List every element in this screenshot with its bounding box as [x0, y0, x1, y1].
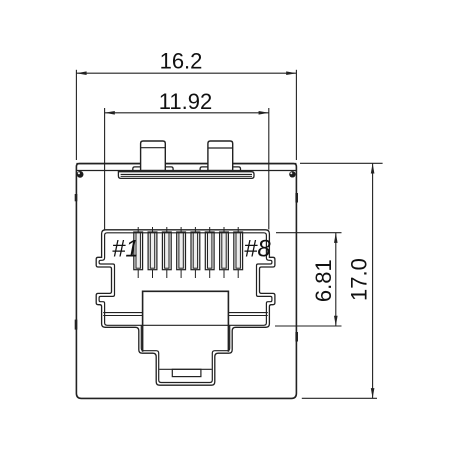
jack cavity inner outline — [99, 233, 272, 325]
cup inner outline — [141, 326, 229, 383]
dimension 11.92 arrow right — [259, 111, 269, 115]
svg-text:11.92: 11.92 — [159, 89, 212, 114]
pin 6 — [205, 227, 214, 278]
dimension 17.0 arrow top — [371, 163, 375, 173]
dimension 16.2 extension line right — [295, 70, 297, 160]
dimension 6.81 arrow top — [334, 233, 338, 243]
dimension 6.81 tick top — [276, 232, 342, 234]
dimension 16.2 arrow right — [286, 71, 296, 75]
side tab lower-left — [75, 320, 78, 330]
cup floor line — [159, 368, 212, 370]
dimension 16.2 line — [76, 72, 296, 74]
pin 4 — [177, 227, 186, 278]
svg-text:#8: #8 — [244, 236, 271, 263]
dimension 11.92 arrow left — [105, 111, 115, 115]
cup small rectangle — [172, 369, 201, 376]
bump foot left-right — [165, 167, 173, 172]
svg-text:16.2: 16.2 — [160, 49, 203, 74]
dimension 17.0 tick top — [300, 162, 383, 164]
dimension 17.0 arrow bottom — [371, 388, 375, 398]
dimension 16.2 arrow left — [76, 71, 86, 75]
dimension 11.92 line — [105, 112, 269, 114]
pin 7 — [220, 227, 229, 278]
flange bottom line — [76, 170, 296, 172]
latch window rectangle — [143, 291, 229, 352]
shelf line right upper — [228, 312, 267, 314]
svg-text:#1: #1 — [112, 236, 139, 263]
jack cavity outer outline — [96, 230, 275, 385]
dimension 16.2 extension line left — [75, 70, 77, 160]
connector body outline — [76, 164, 296, 399]
pin 8 — [234, 227, 243, 278]
side tab upper-left — [75, 194, 78, 201]
pin 1 — [134, 227, 143, 278]
shelf line left upper — [103, 312, 142, 314]
dimension 6.81 line — [335, 233, 337, 326]
side tab lower-right — [295, 332, 298, 342]
shelf line right lower — [228, 315, 267, 317]
shelf line left lower — [103, 315, 142, 317]
pin 5 — [191, 227, 200, 278]
latch bump right — [208, 141, 233, 171]
extension line 11.92 left — [104, 108, 106, 230]
bump foot left-left — [133, 167, 141, 172]
latch bump left — [141, 141, 166, 171]
extension line 11.92 right — [268, 108, 270, 230]
dimension 17.0 tick bottom — [302, 397, 377, 399]
rivet right — [289, 171, 295, 177]
side tab upper-right — [295, 193, 298, 203]
dimension 6.81 arrow bottom — [334, 316, 338, 326]
bump foot right-left — [200, 167, 208, 172]
svg-text:17.0: 17.0 — [346, 258, 371, 301]
mounting plate — [118, 172, 254, 179]
flange top line — [76, 163, 296, 165]
svg-text:6.81: 6.81 — [311, 259, 336, 302]
bump foot right-right — [233, 167, 241, 172]
rivet left — [77, 171, 84, 178]
pin 2 — [148, 227, 157, 278]
dimension 17.0 line — [372, 163, 374, 398]
pin 3 — [162, 227, 171, 278]
dimension 6.81 tick bottom — [275, 325, 342, 327]
